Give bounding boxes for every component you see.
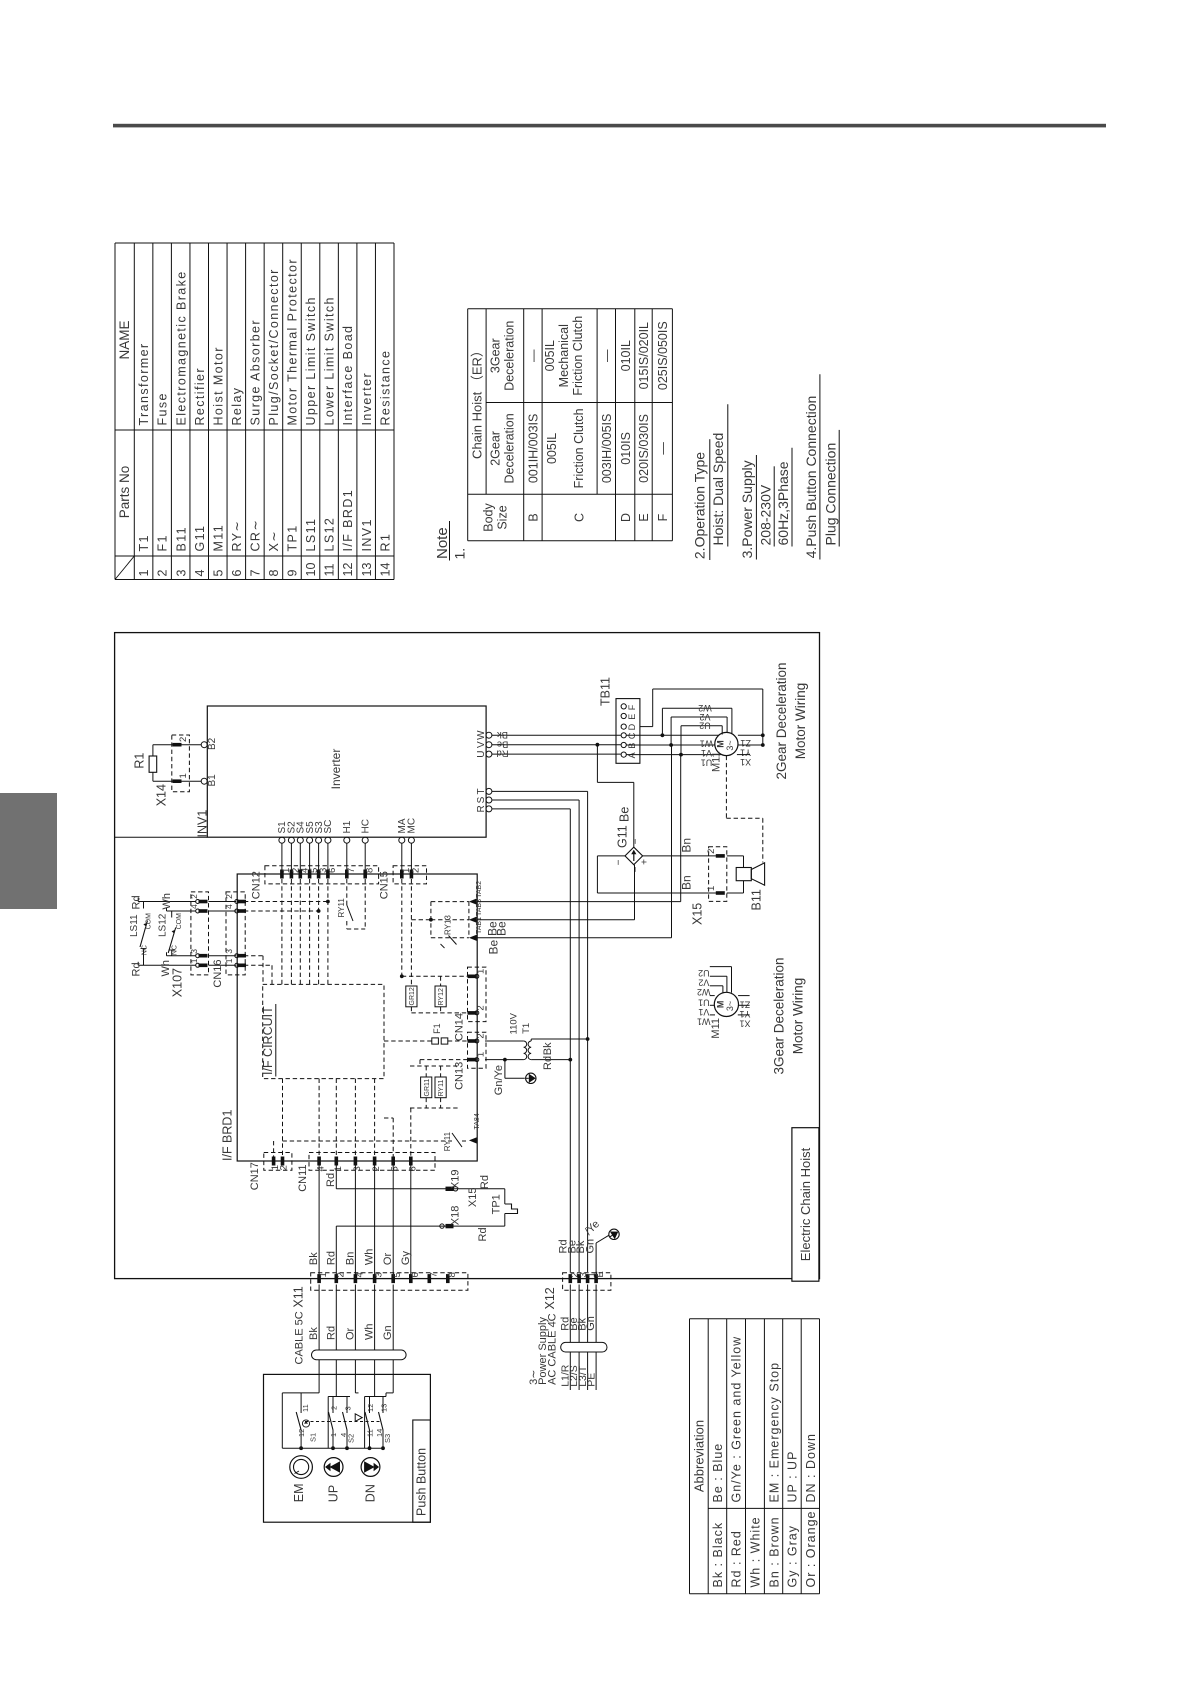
- svg-text:2: 2: [279, 1165, 290, 1170]
- svg-text:X107: X107: [171, 968, 185, 997]
- svg-text:Wh: Wh: [161, 893, 173, 910]
- svg-text:EM : Emergency Stop: EM : Emergency Stop: [767, 1362, 781, 1503]
- node parts-table: [115, 243, 394, 580]
- wire Rd to TP1: [325, 1166, 505, 1189]
- svg-text:2: 2: [156, 570, 170, 577]
- node cable labels: [294, 1311, 395, 1364]
- node TAB2 pin: [469, 881, 483, 905]
- wire TAB3: [477, 865, 634, 920]
- relay RY11 contact top: [337, 879, 365, 929]
- svg-text:13: 13: [380, 1404, 389, 1412]
- wire jumper V2: [669, 712, 727, 747]
- wire Bk: [318, 1166, 320, 1279]
- svg-text:E: E: [637, 513, 651, 521]
- wire stub W2: [697, 986, 723, 997]
- svg-text:R1: R1: [133, 753, 147, 769]
- svg-text:001IH/003IS: 001IH/003IS: [527, 414, 541, 484]
- svg-text:Rd: Rd: [496, 748, 508, 759]
- svg-text:Mechanical: Mechanical: [557, 324, 571, 387]
- wire E ground: [596, 1228, 621, 1274]
- svg-text:Surge Absorber: Surge Absorber: [248, 319, 262, 425]
- svg-text:11: 11: [366, 1429, 375, 1437]
- wire bottom bus: [282, 1446, 385, 1450]
- svg-text:Wh : White: Wh : White: [748, 1516, 762, 1587]
- svg-text:DN : Down: DN : Down: [804, 1433, 818, 1502]
- svg-text:Relay: Relay: [230, 387, 244, 426]
- wire dashed to brake: [726, 756, 762, 863]
- connector CN13: [454, 1032, 487, 1090]
- svg-text:1: 1: [224, 958, 234, 963]
- svg-text:B11: B11: [750, 889, 764, 910]
- svg-text:G11: G11: [616, 825, 630, 848]
- svg-text:Rd: Rd: [131, 895, 143, 909]
- svg-text:4.Push Button Connection: 4.Push Button Connection: [803, 396, 819, 559]
- svg-text:2: 2: [178, 737, 189, 742]
- node inverter pin SC: [323, 820, 334, 874]
- node main-enclosure: [115, 633, 820, 1279]
- wire Bn to X15 pin2: [643, 838, 716, 856]
- svg-text:Rectifier: Rectifier: [193, 367, 207, 425]
- svg-text:2: 2: [371, 1166, 382, 1171]
- svg-text:GR12: GR12: [409, 987, 416, 1005]
- svg-text:Gn/Ye : Green and Yellow: Gn/Ye : Green and Yellow: [730, 1336, 744, 1503]
- svg-text:CABLE 5C: CABLE 5C: [294, 1311, 306, 1364]
- svg-text:5: 5: [211, 570, 225, 577]
- connector X19: [446, 1170, 492, 1191]
- wire S: [492, 800, 579, 1272]
- svg-text:Size: Size: [496, 505, 510, 529]
- svg-text:Chain Hoist （ER）: Chain Hoist （ER）: [470, 344, 485, 459]
- node chain-hoist-table: [468, 309, 673, 541]
- node TAB3 pin: [469, 899, 483, 923]
- svg-text:RY12: RY12: [438, 988, 445, 1005]
- op-amp INV1 inverter: [196, 706, 487, 838]
- svg-text:T1: T1: [521, 1023, 532, 1034]
- svg-text:NAME: NAME: [117, 320, 132, 359]
- svg-text:3.Power Supply: 3.Power Supply: [739, 460, 755, 558]
- svg-text:−: −: [631, 866, 642, 872]
- svg-text:—: —: [527, 349, 541, 362]
- svg-text:RY11: RY11: [337, 898, 346, 918]
- node inverter pin S: [476, 796, 492, 803]
- wire stub U2: [698, 967, 731, 993]
- svg-text:Friction Clutch: Friction Clutch: [571, 316, 585, 396]
- svg-text:X11: X11: [292, 1286, 306, 1307]
- svg-text:T1: T1: [137, 534, 151, 551]
- svg-text:Abbreviation: Abbreviation: [692, 1420, 707, 1492]
- svg-text:3~: 3~: [725, 740, 735, 750]
- svg-text:HC: HC: [360, 819, 371, 833]
- motor M11 2gear: [711, 732, 739, 772]
- wire Or: [392, 1166, 394, 1279]
- node motor terminal labels: [700, 738, 751, 767]
- op-amp I/F BRD1 board: [221, 874, 478, 1161]
- svg-text:Parts No: Parts No: [117, 466, 132, 519]
- node abbreviation-table: [690, 1319, 820, 1594]
- node inverter pin T: [476, 788, 492, 794]
- svg-text:Gn: Gn: [585, 1316, 597, 1331]
- svg-text:4: 4: [193, 570, 207, 577]
- svg-text:CN16: CN16: [212, 959, 224, 987]
- svg-text:Motor Thermal Protector: Motor Thermal Protector: [286, 258, 300, 425]
- connector CN15: [379, 866, 427, 986]
- svg-text:M11: M11: [211, 524, 225, 552]
- svg-text:005IL: 005IL: [543, 340, 557, 371]
- wire power cores: [570, 1285, 596, 1391]
- wire cable cores: [319, 1285, 393, 1375]
- svg-text:LS11: LS11: [304, 518, 318, 552]
- svg-text:Gy : Gray: Gy : Gray: [786, 1525, 800, 1587]
- node gray-tab: [0, 793, 57, 909]
- connector X107: [171, 892, 209, 997]
- svg-text:X19: X19: [450, 1170, 462, 1190]
- svg-text:Gn: Gn: [382, 1325, 394, 1340]
- node TA84 pin: [469, 1113, 481, 1143]
- svg-text:Bn: Bn: [344, 1252, 356, 1265]
- svg-text:Transformer: Transformer: [137, 342, 151, 425]
- svg-text:S2: S2: [347, 1434, 356, 1443]
- svg-text:2: 2: [411, 868, 422, 873]
- wire Bn: [354, 1166, 356, 1279]
- svg-text:2: 2: [706, 849, 717, 854]
- svg-text:6: 6: [407, 1166, 418, 1171]
- node inverter pin B1: [201, 774, 218, 787]
- svg-text:TB11: TB11: [599, 677, 613, 706]
- node EM button: [290, 1456, 313, 1503]
- svg-text:1: 1: [137, 570, 151, 577]
- node power supply labels: [528, 1313, 598, 1386]
- svg-text:CN15: CN15: [379, 871, 391, 899]
- svg-text:F1: F1: [432, 1023, 442, 1034]
- svg-text:3: 3: [174, 570, 188, 577]
- svg-text:MC: MC: [407, 818, 418, 834]
- relay RY11 GR11: [410, 1060, 460, 1108]
- svg-text:3: 3: [374, 1272, 385, 1277]
- diode interlock: [355, 1374, 362, 1421]
- svg-text:X12: X12: [543, 1287, 557, 1309]
- svg-text:X14: X14: [155, 784, 169, 806]
- svg-text:I/F BRD1: I/F BRD1: [341, 489, 355, 552]
- switch S2 UP: [328, 1374, 355, 1448]
- svg-text:B2: B2: [207, 737, 218, 750]
- svg-text:−: −: [631, 838, 642, 844]
- svg-text:1: 1: [318, 1272, 329, 1277]
- node X11 wire labels above: [308, 1249, 412, 1266]
- svg-text:Gn: Gn: [584, 1239, 596, 1254]
- wire G11 top to V tap: [596, 743, 634, 847]
- svg-text:2: 2: [476, 1005, 487, 1010]
- svg-text:Plug/Socket/Connector: Plug/Socket/Connector: [267, 268, 281, 425]
- node inverter pin B2: [201, 737, 218, 750]
- svg-text:D: D: [627, 723, 637, 730]
- svg-text:W: W: [476, 730, 487, 740]
- svg-text:Bk: Bk: [497, 729, 508, 740]
- svg-text:Wh: Wh: [364, 1324, 376, 1341]
- svg-text:2: 2: [476, 1033, 487, 1038]
- svg-text:5: 5: [392, 1272, 403, 1277]
- svg-text:UP : UP: UP : UP: [786, 1451, 800, 1503]
- node 3gear motor terminals: [697, 996, 750, 1029]
- svg-text:W1: W1: [700, 739, 714, 749]
- node power cable labels: [559, 1316, 597, 1331]
- svg-text:11: 11: [323, 563, 337, 576]
- svg-text:E: E: [627, 714, 637, 720]
- svg-text:F: F: [627, 704, 637, 710]
- connector TB11: [599, 677, 640, 763]
- svg-text:COM: COM: [176, 913, 183, 930]
- svg-text:1: 1: [178, 773, 189, 778]
- connector X11: [292, 1272, 468, 1307]
- wire Bn to X15 pin1: [597, 875, 716, 893]
- svg-text:TP1: TP1: [491, 1194, 503, 1214]
- svg-text:Y1: Y1: [740, 748, 751, 758]
- svg-text:020IS/030IS: 020IS/030IS: [637, 414, 651, 483]
- svg-text:Friction Clutch: Friction Clutch: [572, 408, 586, 488]
- wire: [737, 754, 750, 756]
- svg-text:INV1: INV1: [196, 810, 210, 838]
- svg-text:Rd: Rd: [325, 1173, 337, 1187]
- wire: [182, 744, 202, 746]
- svg-text:E: E: [595, 1271, 606, 1277]
- svg-text:Bn : Brown: Bn : Brown: [767, 1516, 781, 1587]
- wire: [626, 754, 721, 756]
- svg-text:Lower Limit Switch: Lower Limit Switch: [323, 296, 337, 425]
- svg-text:M: M: [716, 740, 726, 748]
- svg-text:X18: X18: [450, 1206, 462, 1226]
- ground Gn/Ye: [493, 1060, 536, 1096]
- svg-text:Deceleration: Deceleration: [503, 413, 517, 483]
- svg-text:V2: V2: [699, 712, 710, 722]
- wire U phase: [492, 753, 621, 755]
- svg-text:10: 10: [304, 563, 318, 577]
- resistor R1: [133, 745, 173, 782]
- svg-text:—: —: [656, 442, 670, 455]
- svg-text:1: 1: [189, 958, 199, 963]
- svg-text:Rd: Rd: [542, 1056, 554, 1070]
- svg-text:RY11: RY11: [438, 1080, 445, 1097]
- svg-text:8: 8: [447, 1272, 458, 1277]
- wire Wh: [374, 1166, 376, 1279]
- svg-text:7: 7: [428, 1272, 439, 1277]
- rectifier G11: [614, 807, 651, 873]
- svg-text:−: −: [614, 859, 625, 865]
- relay RY11 bottom contact: [283, 1131, 467, 1151]
- wire Gn down: [386, 1374, 393, 1396]
- svg-text:T: T: [476, 788, 487, 794]
- svg-text:W2: W2: [697, 987, 711, 997]
- svg-text:3: 3: [189, 949, 199, 954]
- thermal protector TP1: [491, 1189, 518, 1226]
- svg-text:X15: X15: [467, 1188, 479, 1208]
- node X12 wire labels above: [558, 1218, 603, 1253]
- svg-text:C: C: [572, 513, 586, 522]
- node inverter pin W: [476, 730, 492, 740]
- svg-text:9: 9: [286, 570, 300, 577]
- svg-text:CN12: CN12: [251, 871, 263, 899]
- node push button enclosure: [264, 1374, 431, 1522]
- wire V phase: [492, 744, 621, 746]
- svg-text:6: 6: [327, 868, 338, 873]
- relay RY12 GR12: [400, 974, 468, 1013]
- svg-text:RY13: RY13: [444, 915, 453, 935]
- svg-text:Rd: Rd: [325, 1326, 337, 1340]
- svg-text:U2: U2: [698, 968, 710, 978]
- svg-text:11: 11: [301, 1404, 310, 1412]
- svg-text:V2: V2: [698, 978, 709, 988]
- node inverter pin S1: [277, 821, 288, 874]
- svg-text:S: S: [476, 796, 487, 803]
- svg-text:W2: W2: [698, 703, 712, 713]
- svg-text:Push Button: Push Button: [415, 1448, 429, 1516]
- switch LS12: [158, 893, 196, 977]
- svg-text:8: 8: [365, 868, 376, 873]
- svg-text:1: 1: [329, 1433, 338, 1437]
- svg-text:Fuse: Fuse: [156, 392, 170, 425]
- svg-text:Rd: Rd: [325, 1251, 337, 1265]
- svg-text:Gn/Ye: Gn/Ye: [493, 1065, 505, 1095]
- svg-text:3: 3: [352, 1166, 363, 1171]
- node I/F CIRCUIT: [261, 984, 384, 1078]
- wire stub V2: [698, 976, 727, 992]
- switch S3 DN: [365, 1374, 392, 1448]
- svg-text:Be: Be: [495, 921, 509, 936]
- svg-text:010IL: 010IL: [619, 340, 633, 371]
- svg-text:UP: UP: [327, 1485, 341, 1502]
- svg-text:LS12: LS12: [158, 913, 169, 937]
- svg-text:F: F: [656, 513, 670, 521]
- node power cable sheath: [561, 1342, 607, 1352]
- svg-text:Motor Wiring: Motor Wiring: [791, 978, 806, 1055]
- wire: [738, 744, 763, 746]
- svg-text:LS11: LS11: [129, 914, 140, 937]
- svg-text:M: M: [716, 1001, 726, 1009]
- svg-text:Deceleration: Deceleration: [503, 321, 517, 391]
- svg-text:4: 4: [316, 1166, 327, 1171]
- svg-text:8: 8: [267, 570, 281, 577]
- svg-text:Bn: Bn: [680, 875, 694, 890]
- svg-text:X1: X1: [739, 1019, 750, 1029]
- svg-text:1.: 1.: [452, 548, 468, 560]
- svg-text:1: 1: [476, 1052, 487, 1057]
- wire jumper U2: [679, 721, 722, 757]
- svg-text:Rd : Red: Rd : Red: [730, 1530, 744, 1587]
- connector X14: [155, 735, 190, 806]
- wire jumper W2: [661, 703, 732, 737]
- svg-text:I/F CIRCUIT: I/F CIRCUIT: [261, 1006, 275, 1075]
- svg-text:Z1: Z1: [740, 999, 751, 1009]
- svg-text:1: 1: [333, 1166, 344, 1171]
- svg-text:/Ye: /Ye: [583, 1218, 602, 1237]
- svg-text:208-230V: 208-230V: [758, 484, 774, 545]
- svg-text:12: 12: [341, 563, 355, 577]
- node inverter pin H1: [342, 820, 353, 874]
- svg-text:LS12: LS12: [323, 517, 337, 552]
- svg-text:110V: 110V: [509, 1012, 520, 1034]
- svg-text:7: 7: [346, 868, 357, 873]
- wire dashed CN16 into board: [244, 900, 330, 985]
- switch LS11: [129, 895, 196, 976]
- node inverter pin MA: [397, 818, 408, 874]
- svg-text:COM: COM: [146, 913, 153, 930]
- svg-text:Electric Chain Hoist: Electric Chain Hoist: [798, 1147, 813, 1261]
- svg-text:PE: PE: [586, 1373, 598, 1387]
- svg-text:3: 3: [344, 1406, 353, 1410]
- svg-text:12: 12: [297, 1429, 306, 1437]
- svg-text:AC CABLE 4C: AC CABLE 4C: [547, 1313, 559, 1385]
- svg-text:015IS/020IL: 015IS/020IL: [637, 322, 651, 389]
- svg-text:V: V: [476, 741, 487, 748]
- svg-text:3Gear: 3Gear: [489, 338, 503, 373]
- svg-text:14: 14: [378, 563, 392, 577]
- svg-text:1: 1: [476, 969, 487, 974]
- wire Rd from TP1 to X11: [336, 1226, 505, 1279]
- svg-text:U: U: [476, 750, 487, 757]
- svg-text:Rd: Rd: [131, 962, 143, 976]
- node 3gear label: [772, 957, 806, 1074]
- node UP button: [324, 1458, 343, 1503]
- node electric chain hoist label: [792, 1128, 819, 1282]
- connector CN16: [209, 892, 247, 988]
- brake B11: [727, 856, 765, 911]
- svg-text:NC: NC: [142, 945, 149, 955]
- transformer T1: [485, 1012, 589, 1061]
- svg-text:12: 12: [366, 1404, 375, 1412]
- svg-text:CR∼: CR∼: [248, 519, 262, 552]
- node inverter pin S3: [314, 821, 325, 874]
- node notes: [434, 374, 839, 560]
- node inverter pin MC: [407, 818, 418, 874]
- svg-text:R: R: [476, 805, 487, 812]
- svg-text:Wh: Wh: [364, 1249, 376, 1266]
- svg-text:B: B: [527, 513, 541, 521]
- svg-text:Or : Orange: Or : Orange: [804, 1511, 818, 1588]
- wire: [626, 734, 718, 736]
- relay RY13: [411, 902, 469, 948]
- svg-text:EM: EM: [292, 1483, 306, 1502]
- svg-text:+: +: [640, 859, 651, 865]
- svg-text:2Gear: 2Gear: [489, 431, 503, 466]
- svg-text:Y1: Y1: [739, 1009, 750, 1019]
- svg-text:Hoist: Dual Speed: Hoist: Dual Speed: [710, 433, 726, 546]
- svg-text:S3: S3: [383, 1434, 392, 1443]
- connector CN12: [251, 866, 379, 899]
- wire TAB2: [477, 755, 681, 902]
- svg-text:6: 6: [410, 1272, 421, 1277]
- svg-text:X∼: X∼: [267, 530, 281, 552]
- svg-text:Electromagnetic Brake: Electromagnetic Brake: [174, 270, 188, 425]
- svg-text:Be: Be: [487, 939, 501, 954]
- motor M11 3gear: [710, 992, 739, 1038]
- svg-text:U1: U1: [698, 997, 710, 1007]
- svg-text:3: 3: [224, 949, 234, 954]
- wire: [113, 124, 1106, 128]
- wire mech link: [305, 1421, 380, 1423]
- node DN button: [361, 1458, 380, 1503]
- svg-text:4: 4: [189, 904, 199, 909]
- svg-text:CN17: CN17: [249, 1162, 261, 1190]
- svg-text:NC: NC: [172, 945, 179, 955]
- svg-text:5: 5: [390, 1166, 401, 1171]
- svg-text:CN14: CN14: [454, 1013, 466, 1041]
- svg-text:Rd: Rd: [477, 1227, 489, 1241]
- connector X12: [543, 1271, 611, 1309]
- wire T: [492, 791, 588, 1272]
- svg-text:SC: SC: [323, 820, 334, 834]
- fuse F1: [384, 1023, 468, 1044]
- svg-text:Be: Be: [618, 807, 632, 822]
- node inverter pin S5: [305, 821, 316, 874]
- svg-text:010IS: 010IS: [619, 432, 633, 465]
